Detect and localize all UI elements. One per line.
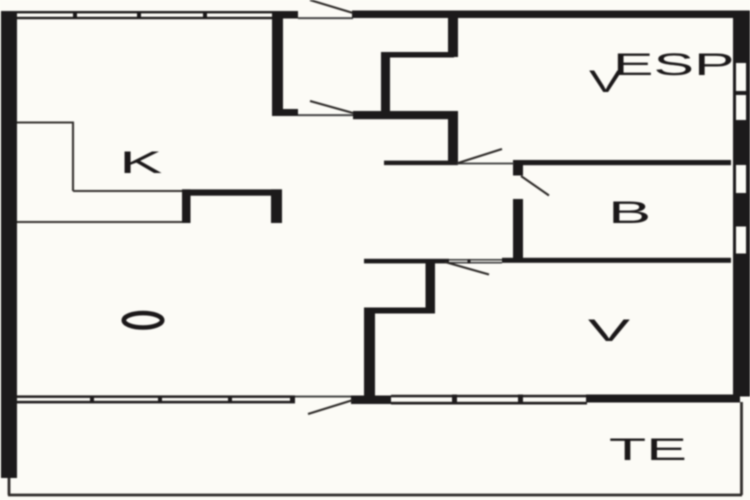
wall E mid divider bbox=[448, 111, 458, 163]
right wall window inset 1 bbox=[736, 63, 746, 91]
bottom band right tick 1 bbox=[452, 395, 457, 405]
V-top door threshold line bbox=[457, 163, 514, 165]
top window tick 2 bbox=[137, 11, 141, 19]
door swing O room to terrace bbox=[308, 400, 353, 414]
vestibule bottom wall bbox=[353, 111, 457, 119]
hall/V-top dividing wall segment bbox=[384, 161, 458, 166]
B room top wall bbox=[513, 160, 731, 165]
kitchen counter top line bbox=[17, 121, 74, 123]
vestibule bottom foot stub bbox=[272, 109, 298, 116]
right wall window inset 3 bbox=[736, 165, 746, 193]
bottom window band left: top line bbox=[16, 395, 295, 398]
top window band: bottom line bbox=[16, 17, 272, 19]
bottom band tick 1 bbox=[90, 396, 94, 404]
top window band: top line bbox=[16, 11, 272, 13]
svg-text:ESP: ESP bbox=[613, 47, 735, 82]
bottom band right tick 2 bbox=[518, 395, 523, 405]
top exterior wall right section bbox=[352, 11, 750, 19]
top window tick 3 bbox=[203, 11, 207, 19]
niche top wall bbox=[381, 52, 454, 58]
svg-text:V: V bbox=[588, 313, 631, 348]
O/V divider upper vertical bbox=[426, 259, 436, 310]
door swing V-top room bbox=[458, 149, 502, 163]
B room left wall lower bbox=[513, 199, 523, 258]
kitchen peninsula wall top bar bbox=[182, 189, 282, 195]
bottom window band right: bottom line bbox=[391, 402, 587, 405]
terrace left edge bbox=[8, 478, 11, 495]
top window tick 1 bbox=[73, 11, 77, 19]
svg-text:V: V bbox=[589, 63, 623, 98]
door swing vestibule bottom bbox=[310, 101, 353, 113]
terrace right edge bbox=[740, 402, 743, 495]
kitchen counter mid line bbox=[73, 190, 182, 192]
door swing B room bbox=[521, 176, 549, 196]
bottom band tick 4 bbox=[290, 396, 295, 404]
right exterior wall bbox=[733, 11, 750, 397]
kitchen counter bottom line bbox=[17, 221, 182, 223]
kitchen peninsula right leg bbox=[271, 189, 282, 223]
bottom band tick 2 bbox=[158, 396, 162, 404]
V-bottom door threshold mid tick bbox=[468, 259, 471, 264]
left exterior wall bbox=[1, 11, 17, 478]
vestibule top stub bbox=[272, 11, 298, 19]
right wall window inset 2 bbox=[736, 95, 746, 120]
right wall window inset 4 bbox=[736, 227, 746, 254]
kitchen peninsula left leg bbox=[182, 189, 191, 223]
bottom band solid piece below divider bbox=[351, 396, 391, 405]
bottom window band right: top line bbox=[391, 395, 587, 398]
O/V divider lower vertical bbox=[364, 308, 375, 400]
vestibule left wall bbox=[272, 11, 283, 116]
B room left wall upper bbox=[513, 160, 523, 176]
V-bottom door threshold top line bbox=[449, 259, 502, 261]
wall C upper divider bbox=[448, 11, 458, 58]
svg-text:B: B bbox=[608, 195, 651, 230]
kitchen counter vertical line bbox=[72, 123, 74, 192]
bottom door threshold line bbox=[295, 396, 351, 398]
door swing V-bottom room bbox=[445, 262, 489, 275]
bottom door threshold of vestibule bbox=[298, 114, 353, 116]
hall bottom wall left segment bbox=[364, 259, 449, 264]
terrace bottom edge bbox=[8, 494, 742, 497]
door swing vestibule top bbox=[310, 0, 353, 13]
room label O (wide ellipse ring) bbox=[124, 313, 162, 327]
bottom window band left: bottom line bbox=[16, 401, 295, 404]
vestibule right wall lower (wall A) bbox=[381, 52, 390, 114]
V-bottom door threshold bottom line bbox=[449, 262, 502, 264]
svg-text:TE: TE bbox=[609, 432, 687, 467]
B room bottom wall right segment bbox=[502, 258, 731, 263]
svg-text:K: K bbox=[119, 144, 162, 179]
top door threshold bbox=[298, 17, 353, 19]
bottom wall solid right section bbox=[586, 395, 740, 403]
bottom band tick 3 bbox=[228, 396, 232, 404]
O/V divider jog horizontal bbox=[364, 308, 435, 314]
